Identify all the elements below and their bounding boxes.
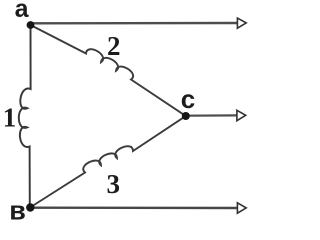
terminal arrow (middle, phase c) [237, 110, 246, 120]
svg-text:1: 1 [3, 103, 17, 133]
wire: phase lead from node c to right edge [186, 114, 237, 116]
wire: diagonal branch a-c with inductor coil 2 [31, 25, 186, 116]
terminal arrow (bottom, phase b) [237, 203, 246, 213]
svg-text:a: a [15, 0, 30, 23]
node b (junction dot) [26, 203, 34, 211]
svg-text:в: в [9, 196, 26, 224]
wire: phase lead from node a to right edge [31, 22, 238, 25]
svg-text:c: c [181, 84, 195, 114]
svg-text:3: 3 [106, 169, 120, 199]
wire: left branch a-b with inductor coil 1 [19, 25, 31, 208]
terminal arrow (top, phase a) [237, 18, 246, 28]
node a (junction dot) [27, 21, 35, 29]
node c (junction dot) [182, 112, 190, 120]
svg-text:2: 2 [107, 31, 121, 61]
wire: phase lead from node b to right edge [31, 206, 238, 209]
wire: diagonal branch b-c with inductor coil 3 [30, 116, 186, 207]
